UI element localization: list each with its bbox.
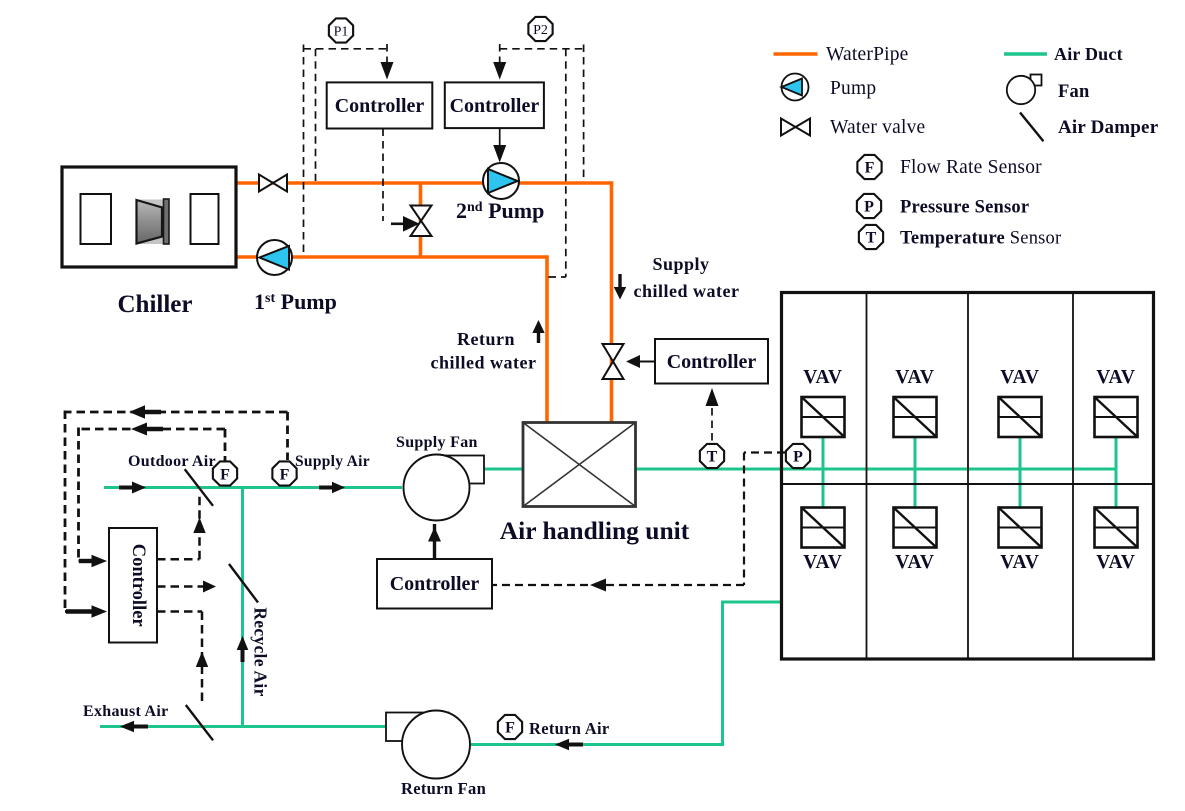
svg-text:Supply Air: Supply Air [295, 453, 370, 470]
svg-text:VAV: VAV [1096, 367, 1136, 388]
svg-text:VAV: VAV [895, 552, 935, 573]
svg-text:Flow Rate Sensor: Flow Rate Sensor [900, 157, 1042, 178]
svg-text:Temperature Sensor: Temperature Sensor [900, 229, 1061, 249]
svg-text:Supply Fan: Supply Fan [396, 434, 478, 451]
svg-text:WaterPipe: WaterPipe [826, 44, 909, 65]
svg-text:VAV: VAV [895, 367, 935, 388]
svg-text:VAV: VAV [1000, 552, 1040, 573]
svg-text:Return Fan: Return Fan [401, 779, 486, 798]
svg-text:P2: P2 [533, 23, 548, 38]
svg-text:Controller: Controller [335, 95, 425, 117]
svg-text:2nd Pump: 2nd Pump [456, 198, 544, 223]
svg-text:Air Damper: Air Damper [1058, 117, 1159, 138]
svg-text:chilled water: chilled water [634, 281, 740, 301]
svg-text:T: T [707, 449, 718, 466]
svg-text:Fan: Fan [1058, 82, 1090, 102]
svg-text:P: P [793, 449, 803, 466]
svg-text:Pressure Sensor: Pressure Sensor [900, 198, 1029, 218]
svg-text:Pump: Pump [830, 78, 876, 99]
svg-text:Exhaust Air: Exhaust Air [83, 703, 169, 720]
svg-text:Return Air: Return Air [529, 719, 609, 738]
svg-text:VAV: VAV [1096, 552, 1136, 573]
svg-text:Air handling unit: Air handling unit [500, 516, 690, 545]
svg-text:Controller: Controller [450, 95, 540, 117]
svg-text:Controller: Controller [128, 544, 148, 627]
svg-text:F: F [220, 467, 230, 484]
svg-text:T: T [866, 230, 877, 247]
svg-text:VAV: VAV [803, 552, 843, 573]
svg-text:Return: Return [457, 329, 515, 349]
svg-text:1st Pump: 1st Pump [254, 289, 337, 314]
svg-text:Supply: Supply [652, 254, 709, 274]
svg-text:F: F [505, 720, 515, 737]
svg-text:Controller: Controller [667, 351, 757, 373]
svg-text:Chiller: Chiller [118, 291, 193, 318]
svg-text:Recycle Air: Recycle Air [251, 607, 271, 696]
svg-text:P: P [864, 199, 874, 216]
svg-text:Water valve: Water valve [830, 117, 925, 138]
svg-text:chilled water: chilled water [431, 353, 537, 373]
svg-text:Outdoor Air: Outdoor Air [128, 453, 216, 470]
svg-text:VAV: VAV [1000, 367, 1040, 388]
svg-text:F: F [280, 467, 290, 484]
svg-text:P1: P1 [334, 25, 349, 40]
svg-text:Air Duct: Air Duct [1054, 44, 1123, 64]
svg-text:VAV: VAV [803, 367, 843, 388]
svg-text:Controller: Controller [390, 573, 480, 595]
svg-text:F: F [865, 160, 875, 177]
